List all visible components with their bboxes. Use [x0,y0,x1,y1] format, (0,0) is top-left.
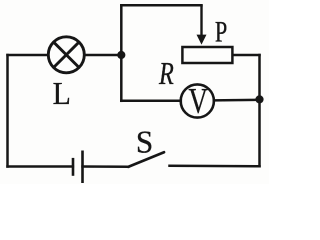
wire lamp row left [8,54,49,57]
wire battery to switch [83,165,129,168]
wire lamp to node A [85,54,122,57]
battery B1 positive plate [81,151,84,184]
svg-text:S: S [136,124,153,159]
resistor R (rheostat body) [182,47,232,63]
svg-text:L: L [53,75,71,111]
wire left rail [6,55,9,167]
node A junction dot [117,51,125,59]
wire right rail [258,55,261,166]
rheostat wiper arrow [197,5,207,44]
battery B1 negative plate [72,158,75,176]
wire bottom right [170,165,260,168]
svg-text:P: P [215,15,227,48]
wire bottom left to battery [8,165,73,168]
wire voltmeter left lead [121,100,181,103]
wire rheostat output to right rail [234,54,260,57]
wire node A down to voltmeter row [120,55,123,101]
switch S blade [128,152,164,167]
lamp L1 [48,37,84,73]
wire voltmeter right lead [214,99,260,102]
voltmeter V1 [181,84,214,117]
svg-text:V: V [188,81,208,121]
node B junction dot [255,95,263,103]
svg-text:R: R [158,55,174,91]
wire mid vertical (node A up to top run) [120,5,123,55]
wire top run [121,4,201,7]
